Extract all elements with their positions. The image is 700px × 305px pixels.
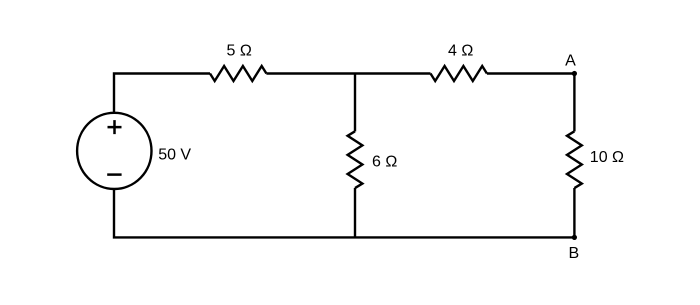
junction: bottom of 6-ohm branch (T junction on bottom bus) — [354, 236, 356, 238]
wire: node B left along bottom bus to bottom middle junction — [355, 236, 574, 238]
svg-text:10 Ω: 10 Ω — [590, 149, 624, 166]
wire: 4-ohm right lead to node A — [487, 72, 575, 74]
svg-text:4 Ω: 4 Ω — [448, 43, 473, 60]
resistor 5 ohm (top left, horizontal zigzag) — [210, 66, 266, 81]
svg-text:6 Ω: 6 Ω — [372, 153, 397, 170]
voltage source 50 V (circle body) — [77, 113, 151, 189]
svg-text:B: B — [568, 245, 579, 262]
svg-text:50 V: 50 V — [158, 146, 191, 163]
wire: bottom middle junction left and up to source negative terminal — [114, 188, 355, 237]
svg-text:5 Ω: 5 Ω — [227, 43, 252, 60]
wire: node A down to 10-ohm resistor top lead — [573, 74, 575, 132]
wire: top middle junction to 4-ohm resistor left lead — [355, 72, 431, 74]
wire: 10-ohm bottom lead down to node B — [573, 188, 575, 237]
junction: top of 6-ohm branch (T junction on top bus) — [354, 73, 356, 75]
wire: top middle junction down to 6-ohm resistor top lead — [354, 74, 356, 132]
node A (junction dot, top right) — [572, 71, 577, 76]
voltage source polarity minus sign — [107, 173, 121, 176]
resistor 6 ohm (middle branch, vertical zigzag) — [348, 131, 363, 188]
voltage source polarity plus sign — [108, 120, 122, 134]
wire: 6-ohm bottom lead down to bottom bus — [354, 188, 356, 237]
resistor 4 ohm (top right, horizontal zigzag) — [431, 66, 487, 81]
wire: source positive terminal up and right to 5-ohm resistor left lead — [114, 74, 210, 114]
node B (junction dot, bottom right) — [572, 235, 577, 240]
resistor 10 ohm (right branch, vertical zigzag) — [567, 131, 582, 188]
wire: 5-ohm right lead to top middle junction — [266, 72, 355, 74]
svg-text:A: A — [565, 53, 576, 70]
